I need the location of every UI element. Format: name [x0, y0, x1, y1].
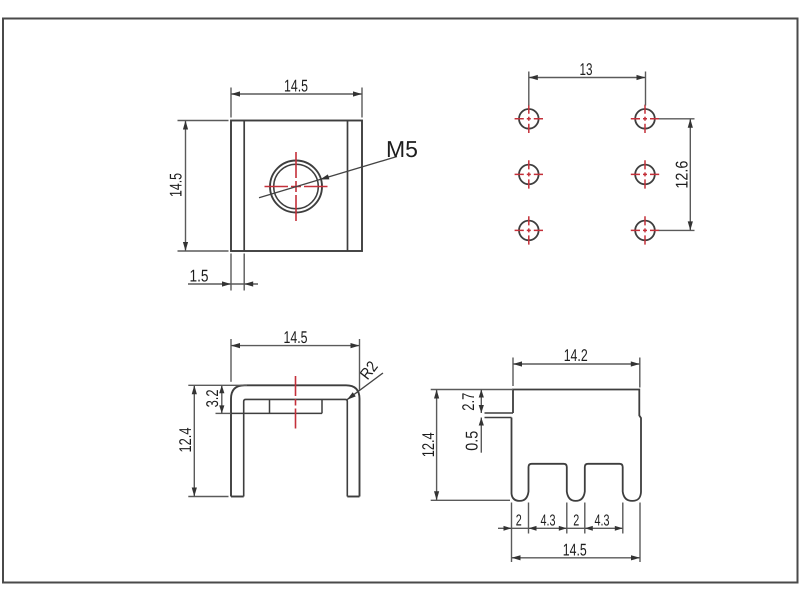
chain extension line b	[528, 503, 530, 534]
svg-text:R2: R2	[357, 358, 382, 383]
svg-text:2: 2	[573, 513, 579, 530]
dim 12.4 v4 line	[436, 390, 438, 501]
centerline vertical	[295, 152, 297, 221]
dim 14.5 left extension lines	[178, 120, 229, 122]
svg-text:14.2: 14.2	[564, 346, 588, 365]
svg-text:4.3: 4.3	[595, 513, 610, 530]
chain extension line c	[566, 503, 568, 534]
nut step left	[269, 399, 271, 413]
top edge extension left	[188, 384, 247, 386]
tab lower line	[485, 417, 512, 419]
R2 leader line	[347, 373, 383, 400]
hole A1	[515, 105, 543, 133]
svg-text:0.5: 0.5	[462, 431, 481, 451]
centerline horizontal	[265, 186, 328, 188]
svg-text:14.5: 14.5	[166, 173, 185, 197]
right bend line	[347, 121, 349, 252]
M5 leader line	[259, 157, 397, 198]
nut profile line	[231, 412, 322, 414]
dim 0.5 line	[480, 418, 482, 453]
dim 14.5 bottom line	[512, 557, 641, 559]
R2 leader arrow	[347, 392, 356, 400]
dim 13 line	[529, 77, 646, 79]
dim 14.2 line	[513, 363, 640, 365]
dim 1.5 extension lines	[230, 254, 232, 291]
hole A2	[515, 160, 543, 188]
dim 14.2 extension lines	[512, 358, 514, 387]
bracket inner profile	[244, 399, 348, 496]
dim 13 extension lines	[528, 72, 530, 106]
hole A3	[515, 216, 543, 244]
dim 12.6 extension lines	[659, 118, 695, 120]
dim 12.6 line	[689, 119, 691, 231]
left bend line	[243, 121, 245, 252]
bottom extension to left	[431, 499, 510, 501]
svg-text:4.3: 4.3	[541, 513, 556, 530]
dim 12.4 v3 line	[193, 385, 195, 496]
svg-text:13: 13	[580, 60, 593, 79]
chain extension line e	[622, 503, 624, 534]
dim 14.5 v3 line	[231, 345, 360, 347]
dim 3.2 line	[221, 385, 223, 413]
comb outline	[512, 390, 642, 501]
dim 2.7 line	[480, 390, 482, 414]
svg-text:1.5: 1.5	[190, 266, 209, 285]
svg-text:14.5: 14.5	[284, 328, 308, 347]
hole B3	[631, 216, 659, 244]
hole B1	[631, 105, 659, 133]
hole outer circle	[270, 161, 322, 213]
right leg bottom cap	[347, 496, 359, 498]
hole B2	[631, 160, 659, 188]
dim 14.5 v3 extension lines	[230, 339, 232, 382]
plate outline	[231, 121, 362, 252]
dim 14.5 left line	[185, 121, 187, 252]
nut line extension left	[216, 412, 232, 414]
svg-text:2: 2	[516, 513, 522, 530]
dim 1.5 line	[188, 283, 258, 285]
chain extension line a	[511, 503, 513, 563]
M5 leader arrow	[320, 174, 329, 179]
svg-text:12.4: 12.4	[176, 428, 195, 453]
svg-text:3.2: 3.2	[203, 389, 222, 407]
centerline	[295, 376, 297, 429]
bracket outer profile	[231, 385, 360, 496]
dim 14.5 bottom right extension	[639, 503, 641, 563]
svg-text:14.5: 14.5	[284, 76, 308, 95]
chain extension line d	[584, 503, 586, 534]
chain dim line	[498, 527, 623, 529]
dim 14.5 top line	[231, 93, 362, 95]
tab upper line	[485, 412, 514, 414]
bottom extension left	[188, 496, 228, 498]
svg-text:14.5: 14.5	[563, 541, 587, 560]
svg-text:12.6: 12.6	[672, 161, 691, 189]
svg-text:2.7: 2.7	[459, 393, 478, 411]
nut step right	[321, 399, 323, 413]
svg-text:12.4: 12.4	[419, 432, 438, 457]
left leg bottom cap	[231, 496, 244, 498]
top edge extension to left	[431, 389, 513, 391]
dim 14.5 top extension lines	[230, 88, 232, 118]
thread circle	[274, 164, 319, 209]
svg-text:M5: M5	[386, 136, 418, 162]
